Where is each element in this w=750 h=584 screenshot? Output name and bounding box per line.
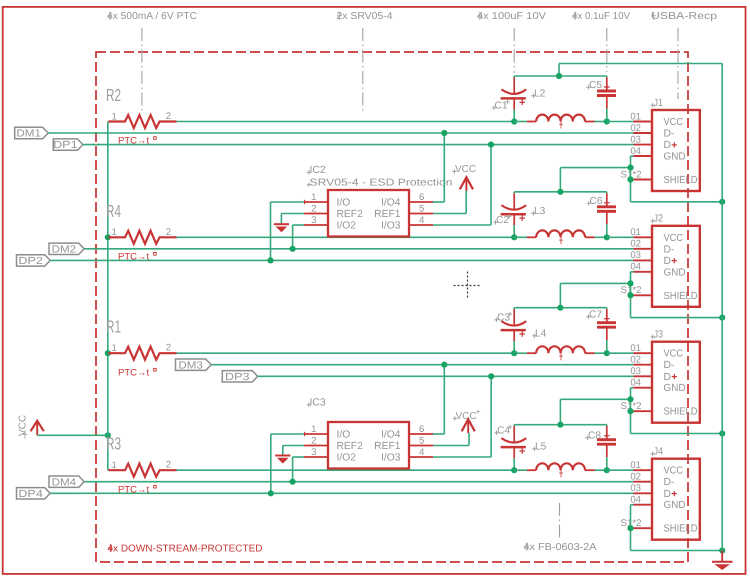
leader line under 100uF label [513,28,515,73]
value label PTC of R1 [118,367,156,378]
junction J3 shield [627,408,633,414]
svg-text:VCC: VCC [664,233,684,244]
wire J2 GND and SHIELD to bus [631,272,723,318]
label J2 [651,214,664,225]
junction J2 gnd / right bus [719,315,725,321]
wire IC3 pin5 to VCC [433,433,469,446]
net flag DP2 [17,255,51,267]
pin 1 label R1 [112,343,117,354]
junction IC3 pin6 / DM3 [441,362,447,368]
label C1 [492,100,510,112]
svg-text:DM1: DM1 [16,129,41,140]
capacitor C6 (0.1uF) [597,192,616,238]
svg-text:I/O3: I/O3 [381,220,401,231]
svg-text:D-: D- [664,129,675,140]
label SRV05-4 - ESD Protection [307,178,453,189]
wire IC3 pin2 to ground [283,446,304,455]
junction C2 gnd riser [557,189,563,195]
svg-text:R1: R1 [106,317,121,337]
wire DM3 net [211,364,633,366]
junction C1 / vbus [511,118,517,124]
wire IC2 pin4 to DP1 [433,145,491,225]
label J4 [651,447,664,458]
label L3 [531,206,545,217]
label 2x SRV05-4 [337,11,393,22]
junction gnd join at J1 vertical [627,165,633,171]
pin names IC2 [337,197,401,231]
label 4x FB-0603-2A [524,542,597,553]
svg-text:C6: C6 [590,196,603,207]
svg-text:DM3: DM3 [178,360,203,371]
resistor R2 (PTC) [108,115,176,128]
wire DM4 net [84,481,633,483]
junction IC3 pin3 / DM4 [290,479,296,485]
capacitor C3 (100uF polarized) [501,308,527,354]
svg-text:2: 2 [166,343,171,354]
svg-text:GND: GND [664,383,686,394]
wire DP4 net [50,492,633,494]
svg-text:VCC: VCC [456,411,477,422]
dashed boundary DOWN-STREAM-PROTECTED region [96,52,688,562]
junction VCC/left bus [105,432,111,438]
svg-text:SHIELD: SHIELD [664,407,698,418]
svg-text:L2: L2 [534,89,546,100]
capacitor C1 (100uF polarized) [501,76,527,122]
wire DM2 net [84,248,633,250]
pin 2 label R2 [166,111,171,122]
junction gnd join at J3 vertical [627,396,633,402]
svg-text:VCC: VCC [664,117,684,128]
svg-text:DP3: DP3 [225,372,250,383]
svg-text:USBA-Recp: USBA-Recp [651,11,718,22]
pin names J1 [664,117,698,186]
label R1 [106,317,121,337]
capacitor C5 (0.1uF) [597,76,616,122]
svg-text:I/O: I/O [337,197,351,208]
wire R3 pin2 to C column [177,469,515,471]
inductor L4 (ferrite bead) [514,346,607,360]
label C6 [587,196,603,207]
svg-text:1: 1 [112,227,117,238]
label C8 [585,431,601,442]
wire C3/C7 gnd tops to J2 gnd [514,283,630,307]
pin names J3 [664,349,698,418]
pin 2 label R1 [166,343,171,354]
svg-text:03: 03 [630,366,641,377]
net flag DP3 [222,371,257,383]
wire C4/C8 gnd tops to J3 gnd [514,399,630,424]
svg-text:REF1: REF1 [374,209,401,220]
svg-text:3: 3 [311,215,316,226]
svg-text:1: 1 [112,111,117,122]
capacitor C2 (100uF polarized) [501,192,527,238]
pin number labels J4 [621,460,642,529]
svg-text:I/O4: I/O4 [381,429,401,440]
wire vbus to J3 pin 01 [607,352,634,354]
wire IC2 pin2 to ground [281,214,304,224]
pin number labels J1 [621,111,642,180]
wire DM1 net [48,132,633,134]
ground symbol bottom right [712,562,733,569]
leader line under 500mA PTC label [141,28,143,111]
svg-text:04: 04 [630,495,641,506]
svg-text:01: 01 [630,343,641,354]
svg-text:1: 1 [311,192,316,203]
svg-text:02: 02 [630,239,641,250]
op-amp style box IC3 (SRV05-4 ESD array) [304,422,433,469]
wire R4 pin2 to C column [177,236,515,238]
svg-text:D-: D- [664,244,675,255]
svg-text:I/O: I/O [337,429,351,440]
svg-text:01: 01 [630,111,641,122]
wire IC3 pin6 to DM3 [433,365,444,434]
svg-text:D-: D- [664,477,675,488]
svg-text:02: 02 [630,123,641,134]
junction J3 gnd / right bus [719,430,725,436]
leader line under USBA-Recp label [677,28,679,99]
svg-text:D: D [664,489,671,500]
svg-text:I/O3: I/O3 [381,452,401,463]
svg-text:02: 02 [630,355,641,366]
net flag DP1 [53,139,83,151]
svg-text:I/O2: I/O2 [337,220,357,231]
junction C3 / vbus [511,350,517,356]
label J3 [651,330,664,341]
svg-text:GND: GND [664,152,686,163]
svg-text:SHIELD: SHIELD [664,175,698,186]
wire DP3 net [258,375,634,377]
wire R1 pin2 to C column [177,352,515,354]
svg-text:SHIELD: SHIELD [664,524,698,535]
svg-text:VCC: VCC [455,164,476,175]
svg-text:R3: R3 [106,434,121,454]
svg-text:1: 1 [112,343,117,354]
junction C4 / vbus [511,467,517,473]
wire IC2 pin5 to VCC [433,191,466,214]
svg-text:2: 2 [311,436,316,447]
svg-text:4x 0.1uF 10V: 4x 0.1uF 10V [572,11,630,22]
wire IC2 pin3 to DM2 [293,225,304,249]
wire J4 GND and SHIELD to bus [631,505,723,551]
junction C7 / vbus [604,350,610,356]
inductor L5 (ferrite bead) [514,463,607,477]
junction C4 gnd riser [557,422,563,428]
junction C8 / vbus [604,467,610,473]
red plus of D+ label J4 [672,491,677,496]
svg-text:GND: GND [664,500,686,511]
label 4x 100uF 10V [477,11,546,22]
pin 2 label R4 [166,227,171,238]
svg-text:R2: R2 [106,85,121,105]
label C7 [586,310,602,321]
junction IC2 pin6 / DM1 [441,130,447,136]
junction J4 gnd / right bus [719,547,725,553]
junction IC3 pin4 / DP3 [488,373,494,379]
junction J2 shield [627,292,633,298]
net flag DM1 [15,127,49,139]
svg-text:DP4: DP4 [18,489,43,500]
capacitor C7 (0.1uF) [597,308,616,354]
svg-text:J3: J3 [654,330,664,341]
inductor L3 (ferrite bead) [514,230,607,244]
svg-text:4: 4 [419,215,425,226]
svg-text:DM4: DM4 [52,477,77,488]
power symbol VCC+ at IC3 [453,407,481,434]
net flag DM2 [49,243,84,255]
wire IC3 pin3 to DM4 [293,457,304,482]
power symbol VCC at IC2 [452,164,476,191]
wire bus stub to ground [721,551,723,562]
resistor R4 (PTC) [108,231,176,244]
wire left VCC bus vertical [107,122,109,471]
svg-text:01: 01 [630,227,641,238]
leader line under 0.1uF label [606,28,608,72]
svg-text:4: 4 [419,447,425,458]
pin labels IC2 right [419,192,425,226]
pin number labels J3 [621,343,642,412]
svg-text:1: 1 [112,460,117,471]
svg-text:VCC: VCC [664,349,684,360]
svg-text:D: D [664,372,671,383]
junction J1 shield [627,176,633,182]
ground symbol at IC3 pin2 [275,456,290,463]
capacitor C4 (100uF polarized) [501,425,527,471]
svg-text:04: 04 [630,146,641,157]
svg-text:1: 1 [311,424,316,435]
svg-text:D: D [664,256,671,267]
wire right ground bus [721,64,723,551]
pin labels IC3 right [419,424,425,458]
svg-text:C7: C7 [589,310,602,321]
label L2 [531,89,545,100]
label R4 [106,201,121,221]
junction J1 gnd / right bus [719,199,725,205]
svg-text:L3: L3 [534,206,546,217]
svg-text:04: 04 [630,378,641,389]
svg-text:2: 2 [166,227,171,238]
svg-text:VCC: VCC [18,415,29,436]
op-amp style box IC2 (SRV05-4 ESD array) [304,190,433,237]
label 4x DOWN-STREAM-PROTECTED [108,544,263,555]
svg-text:C8: C8 [588,431,601,442]
junction left bus / R4 pin 1 [105,234,111,240]
svg-text:J1: J1 [654,98,664,109]
svg-text:D-: D- [664,360,675,371]
svg-text:D: D [664,140,671,151]
svg-text:L4: L4 [535,329,547,340]
label C2 [493,214,511,226]
net flag DM4 [49,476,84,488]
label C5 [586,80,602,91]
connector J1 (USBA receptacle) [634,110,700,191]
svg-text:03: 03 [630,134,641,145]
svg-text:REF1: REF1 [374,441,401,452]
red plus of D+ label J3 [672,374,677,379]
svg-text:DM2: DM2 [52,244,77,255]
wire R2 pin2 to C column [177,121,515,123]
svg-text:J4: J4 [654,447,664,458]
junction C2 / vbus [511,234,517,240]
pin names IC3 [337,429,401,463]
value label PTC of R4 [118,252,156,263]
leader line above FB-0603 label [559,503,561,538]
label IC2 [307,165,326,176]
junction C6 / vbus [604,234,610,240]
svg-text:IC3: IC3 [310,398,326,409]
red plus of D+ label J2 [672,258,677,263]
junction IC2 pin1 / DP2 [267,257,273,263]
pin 1 label R4 [112,227,117,238]
net flag DM3 [176,359,212,371]
svg-text:3: 3 [311,447,316,458]
svg-text:J2: J2 [654,214,664,225]
label C4 [494,425,512,437]
svg-text:6: 6 [419,424,424,435]
svg-text:2: 2 [166,460,171,471]
svg-text:PTC→t: PTC→t [118,367,150,378]
svg-text:GND: GND [664,267,686,278]
svg-text:01: 01 [630,460,641,471]
connector J2 (USBA receptacle) [634,226,700,307]
wire vbus to J4 pin 01 [607,469,634,471]
svg-text:6: 6 [419,192,424,203]
connector J4 (USBA receptacle) [634,459,700,540]
svg-text:REF2: REF2 [337,441,364,452]
svg-text:REF2: REF2 [337,209,364,220]
capacitor C8 (0.1uF) [597,425,616,471]
wire DP1 net [83,144,634,146]
label 4x 0.1uF 10V [572,11,630,22]
junction gnd join at J2 vertical [627,280,633,286]
junction IC2 pin3 / DM2 [290,246,296,252]
pin labels IC3 left [311,424,316,458]
junction J4 shield [627,525,633,531]
wire J3 GND and SHIELD to bus [631,388,723,434]
label L5 [532,442,546,453]
supply VCC input symbol [18,415,44,439]
junction IC3 pin1 / DP4 [268,490,274,496]
svg-text:03: 03 [630,483,641,494]
label USBA-Recp [651,11,718,22]
label R2 [106,85,121,105]
svg-text:5: 5 [419,436,424,447]
cursor crosshair [454,272,482,300]
svg-text:4x FB-0603-2A: 4x FB-0603-2A [524,542,597,553]
label J1 [651,98,664,109]
wire IC2 pin6 to DM1 [433,133,444,202]
red plus of D+ label J1 [672,142,677,147]
svg-text:SRV05-4 - ESD Protection: SRV05-4 - ESD Protection [310,178,453,189]
svg-text:I/O2: I/O2 [337,452,357,463]
net flag DP4 [17,488,51,500]
junction left bus / R1 pin 1 [105,350,111,356]
svg-text:2x SRV05-4: 2x SRV05-4 [337,11,393,22]
svg-text:4x DOWN-STREAM-PROTECTED: 4x DOWN-STREAM-PROTECTED [108,544,263,555]
label 4x 500mA / 6V PTC [107,11,197,22]
value label PTC of R3 [118,484,156,495]
wire VCC input to left bus [37,434,108,436]
svg-text:L5: L5 [535,442,547,453]
wire C1/C5 gnd tops to right bus [514,64,722,77]
pin 2 label R3 [166,460,171,471]
svg-text:IC2: IC2 [310,165,326,176]
svg-text:4x 500mA / 6V PTC: 4x 500mA / 6V PTC [107,11,197,22]
svg-text:2: 2 [311,204,316,215]
connector J3 (USBA receptacle) [634,342,700,423]
svg-text:VCC: VCC [664,466,684,477]
svg-text:SHIELD: SHIELD [664,291,698,302]
svg-text:I/O4: I/O4 [381,197,401,208]
pin names J4 [664,466,698,535]
junction C5 / vbus [604,118,610,124]
svg-text:5: 5 [419,204,424,215]
junction IC2 pin4 / DP1 [488,142,494,148]
svg-text:2: 2 [166,111,171,122]
wire vbus to J1 pin 01 [607,121,634,123]
wire C2/C6 gnd tops to J1 gnd [514,168,630,192]
label L4 [532,329,546,340]
pin labels IC2 left [311,192,316,226]
svg-text:DP1: DP1 [53,140,78,151]
svg-text:+: + [476,407,481,417]
wire vbus to J2 pin 01 [607,236,634,238]
resistor R3 (PTC) [108,464,176,477]
wire IC2 pin1 to DP2 [271,202,305,260]
svg-text:4x 100uF 10V: 4x 100uF 10V [477,11,546,22]
junction C3 gnd riser [557,305,563,311]
junction C1 gnd riser [556,73,562,79]
resistor R1 (PTC) [108,347,176,360]
wire IC3 pin1 to DP4 [271,434,304,493]
svg-text:DP2: DP2 [18,256,43,267]
wire DP2 net [50,259,633,261]
label IC3 [307,398,326,409]
wire J1 GND and SHIELD to bus [631,156,723,202]
label C3 [494,312,512,324]
label R3 [106,434,121,454]
wire IC3 pin4 to DP3 [433,376,491,457]
svg-text:03: 03 [630,250,641,261]
pin 1 label R3 [112,460,117,471]
value label PTC of R2 [118,136,156,147]
ground symbol at IC2 pin2 [274,224,289,231]
svg-text:04: 04 [630,262,641,273]
leader line under SRV05-4 label [362,28,364,111]
pin number labels J2 [621,227,642,296]
pin names J2 [664,233,698,302]
svg-text:02: 02 [630,472,641,483]
svg-text:C5: C5 [589,80,602,91]
svg-text:R4: R4 [106,201,121,221]
inductor L2 (ferrite bead) [514,115,607,129]
pin 1 label R2 [112,111,117,122]
